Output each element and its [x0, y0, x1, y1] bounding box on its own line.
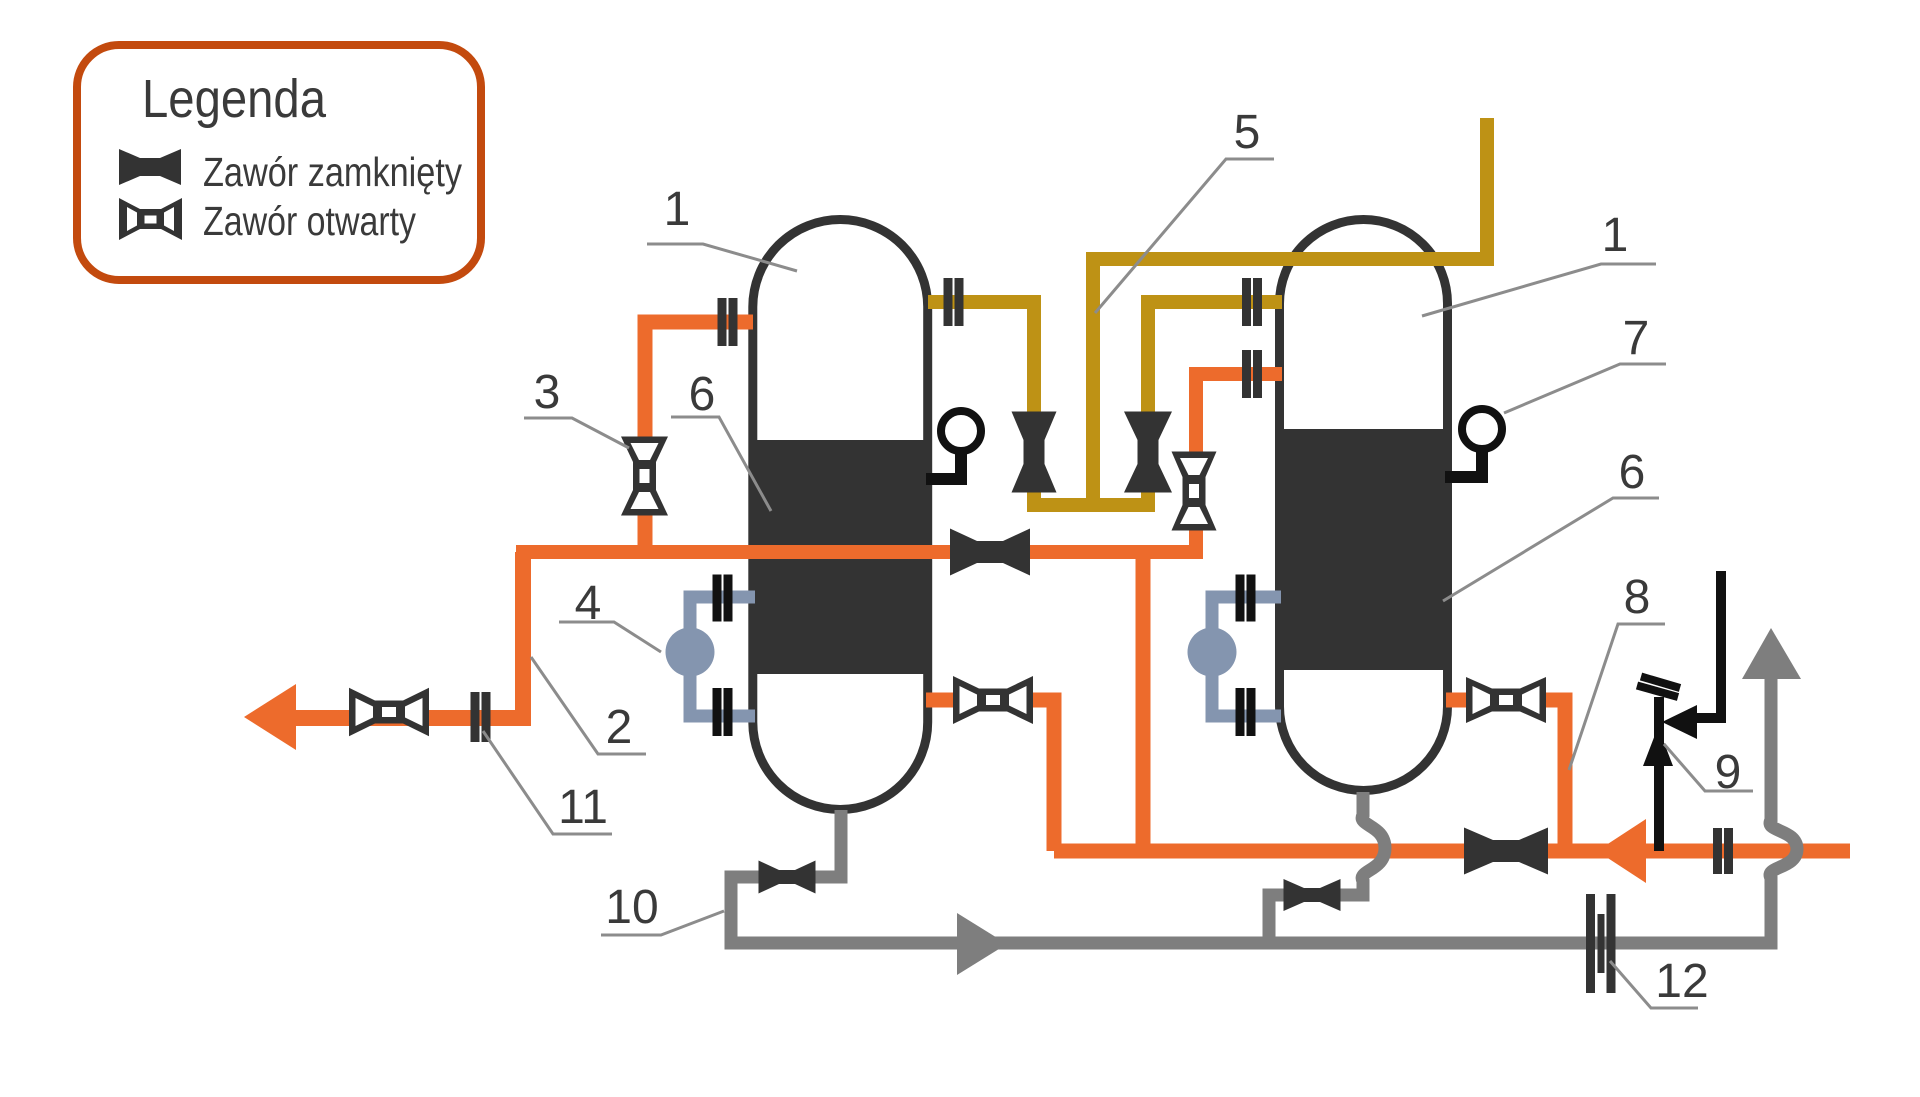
- svg-text:10: 10: [605, 881, 658, 934]
- pipe: vessel 2 drain with bridge over orange line: [1269, 792, 1385, 949]
- label 7 (gauge): [1504, 312, 1666, 413]
- svg-text:Legenda: Legenda: [142, 69, 327, 129]
- orifice flange set on drain header (item 12): [1586, 894, 1616, 993]
- open valve on vessel 1 bottom outlet: [953, 676, 1033, 724]
- svg-text:6: 6: [1619, 446, 1646, 499]
- adsorbent bed of vessel 1 (item 6): [753, 440, 928, 674]
- label 6 (left bed): [671, 368, 771, 511]
- svg-text:4: 4: [575, 577, 602, 630]
- closed gold valve left (regeneration): [1012, 412, 1057, 493]
- label 8 (bottom outlet): [1569, 571, 1665, 770]
- pipe: vessel 1 bottom outlet stub (item 8 left): [926, 700, 1054, 851]
- label 10 (drain line): [601, 881, 724, 935]
- svg-text:Zawór otwarty: Zawór otwarty: [203, 198, 416, 244]
- closed drain valve of vessel 2: [1284, 879, 1341, 911]
- flange pair on vessel 1 top inlet: [718, 298, 738, 346]
- flange pair on vessel 1 bypass top: [713, 575, 733, 622]
- bypass loop of vessel 2 (item 4): [1188, 597, 1282, 716]
- pipe: orange outlet line to left arrow (item 2 branch): [292, 552, 523, 718]
- pipe: orange bottom inlet line from right: [1054, 844, 1850, 859]
- open valve above vessel 1 (item 3): [621, 437, 668, 516]
- label 4 (left bypass): [559, 577, 661, 652]
- open valve on outlet line: [349, 688, 429, 737]
- label 1 (left vessel): [647, 183, 797, 271]
- svg-text:9: 9: [1715, 746, 1742, 799]
- open valve on vessel 2 bottom outlet: [1466, 677, 1546, 723]
- legend icon: closed valve: [119, 149, 181, 185]
- label 9 (relief valve): [1664, 744, 1753, 799]
- adsorbent bed of vessel 2 (item 6): [1276, 429, 1448, 670]
- closed valve on bottom inlet line: [1464, 828, 1548, 875]
- label 5 (gold riser): [1095, 106, 1274, 313]
- pipe: gold line from vessel 1 top to regeneration manifold: [928, 302, 1282, 505]
- closed valve on main header: [950, 529, 1030, 576]
- flange pair on outlet line (item 11): [471, 692, 491, 742]
- gray flow arrow on drain header: [957, 913, 1007, 975]
- closed gold valve right (regeneration): [1124, 412, 1172, 493]
- pipe: vessel 1 drain with elbow (item 10): [731, 810, 841, 943]
- orange inlet arrow on bottom line: [1597, 819, 1646, 883]
- svg-text:5: 5: [1234, 106, 1261, 159]
- svg-text:1: 1: [1602, 209, 1629, 262]
- label 2 (main header): [531, 657, 646, 754]
- flange pair on vessel 1 gold outlet: [944, 278, 964, 326]
- safety relief valve (item 9): [1637, 571, 1721, 851]
- svg-text:8: 8: [1624, 571, 1651, 624]
- closed drain valve of vessel 1: [759, 861, 816, 894]
- legend icon: open valve: [119, 198, 182, 240]
- legend title Legenda: [142, 69, 327, 129]
- svg-text:3: 3: [534, 366, 561, 419]
- gray vent arrow (up): [1742, 628, 1801, 679]
- label 1 (right vessel): [1422, 209, 1656, 316]
- legend box: [77, 45, 481, 280]
- open valve on riser to vessel 2 inlet: [1172, 452, 1217, 531]
- pressure gauge on vessel 2 (item 7): [1445, 409, 1502, 477]
- pipe: orange main header (item 2): [516, 374, 1282, 552]
- pressure gauge on vessel 1 (item 7): [926, 411, 981, 479]
- vessel 1 (adsorber column A, item 1): [753, 220, 928, 810]
- legend text: Zawor zamkniety: [203, 149, 462, 195]
- svg-text:12: 12: [1655, 955, 1708, 1008]
- vessel 2 (adsorber column B, item 1): [1280, 220, 1448, 791]
- svg-text:Zawór zamknięty: Zawór zamknięty: [203, 149, 462, 195]
- pipe: orange riser to vessel 1 top inlet: [645, 322, 753, 559]
- svg-text:2: 2: [606, 701, 633, 754]
- svg-text:6: 6: [689, 368, 716, 421]
- flange pair on vessel 2 orange inlet: [1242, 350, 1262, 398]
- pipe: gold center riser (item 5): [1086, 259, 1100, 505]
- flange pair on vessel 2 bypass top: [1236, 575, 1256, 622]
- label 12 (orifice flange): [1610, 955, 1709, 1008]
- pipe: gold exhaust header over vessel 2: [1086, 118, 1487, 259]
- label 3 (open valve): [524, 366, 629, 448]
- label 11 (outlet flange): [483, 731, 612, 834]
- flange pair on bottom inlet line: [1713, 828, 1733, 874]
- svg-text:7: 7: [1623, 312, 1650, 365]
- orange outlet arrow (flow to dryer outlet): [244, 684, 296, 750]
- svg-text:11: 11: [558, 781, 608, 834]
- flange pair on vessel 1 bypass bottom: [713, 688, 733, 736]
- flange pair on vessel 2 gold inlet: [1242, 278, 1262, 326]
- pipe: orange drop from main header to bottom inlet line: [1136, 552, 1151, 851]
- flange pair on vessel 2 bypass bottom: [1236, 688, 1256, 736]
- pipe: vessel 2 bottom outlet stub (item 8): [1446, 700, 1565, 851]
- pipe: gray bottom drain header and vent riser with bridge: [725, 675, 1798, 943]
- svg-text:1: 1: [664, 183, 691, 236]
- label 6 (right bed): [1443, 446, 1659, 601]
- legend text: Zawor otwarty: [203, 198, 416, 244]
- bypass loop of vessel 1 (item 4): [666, 597, 756, 716]
